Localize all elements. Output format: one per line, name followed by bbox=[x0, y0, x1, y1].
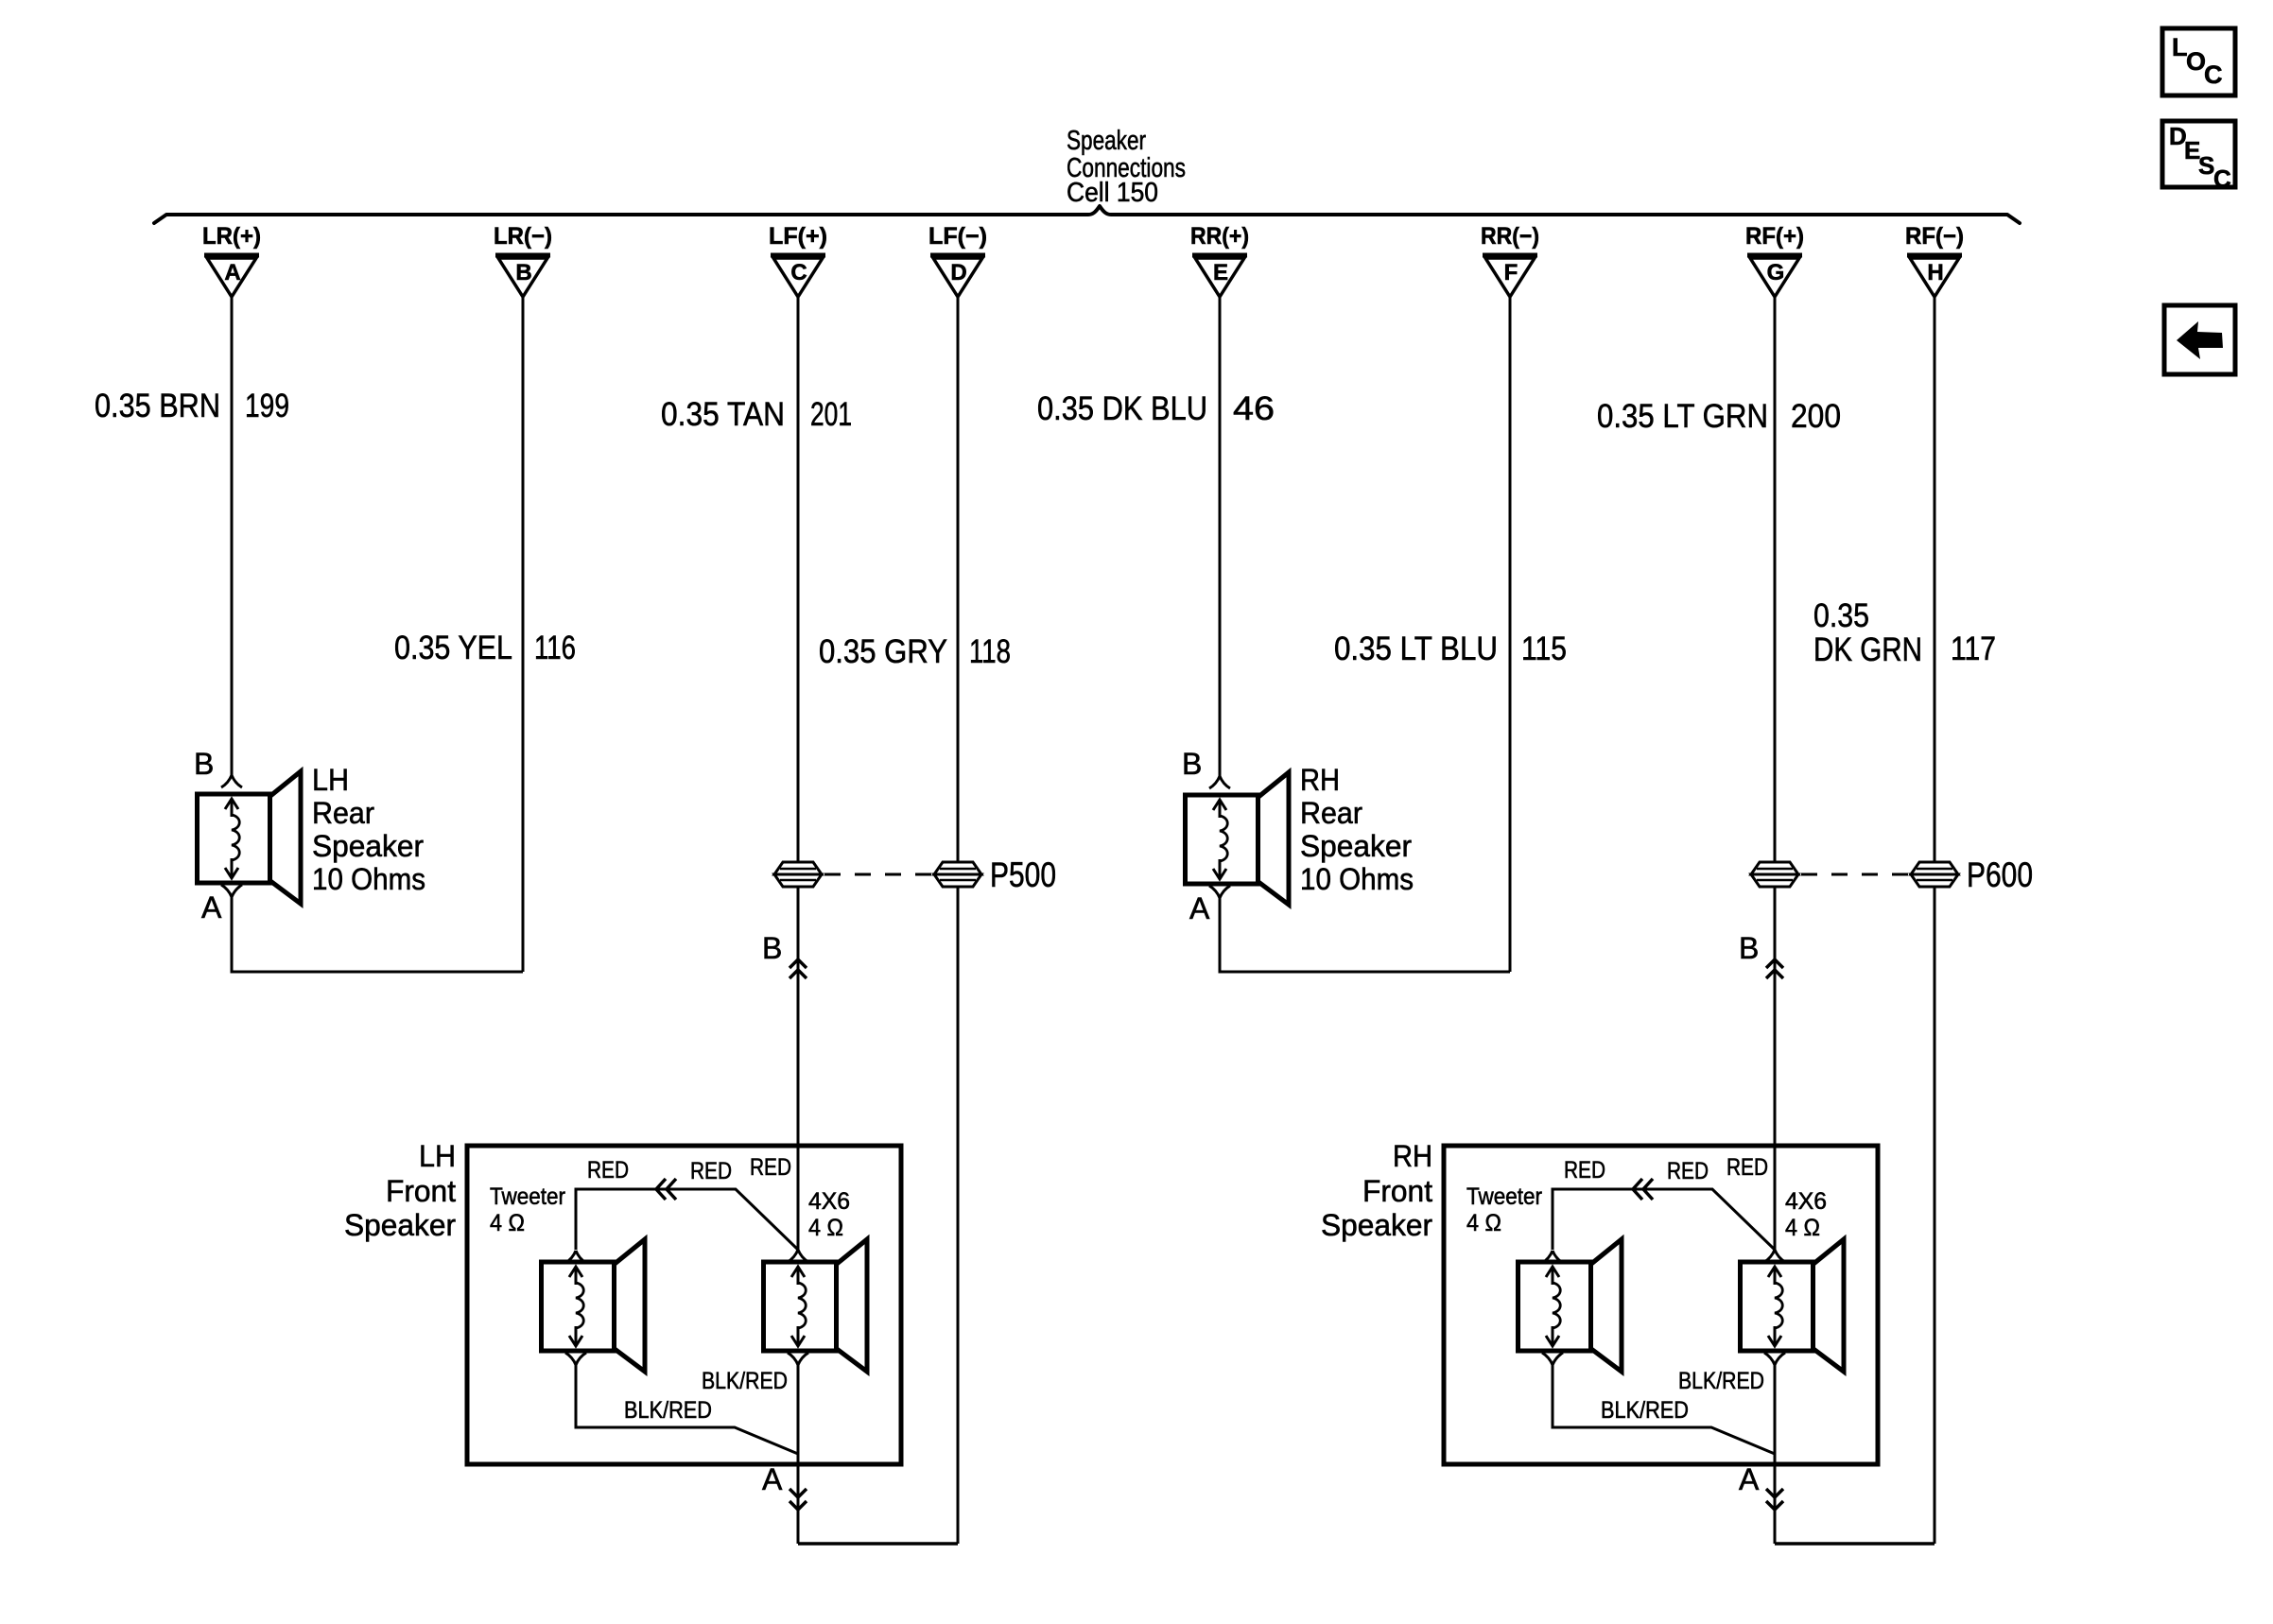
terminal bottom RH 4X6 bbox=[1764, 1353, 1785, 1365]
svg-text:LF(+): LF(+) bbox=[769, 223, 827, 250]
svg-text:RED: RED bbox=[690, 1158, 732, 1184]
svg-text:Speaker: Speaker bbox=[1300, 829, 1412, 863]
terminal bottom RH tweeter bbox=[1542, 1353, 1563, 1365]
chevrons left on RED wire LH bbox=[656, 1179, 676, 1200]
connector pin D triangle bbox=[930, 255, 985, 297]
speaker LH rear symbol bbox=[198, 771, 302, 904]
wire H below P600 to bottom return bbox=[1934, 887, 1936, 1544]
icon back arrow box bbox=[2164, 305, 2235, 374]
svg-text:RR(−): RR(−) bbox=[1481, 223, 1539, 250]
terminal A of RH rear speaker bbox=[1209, 886, 1230, 898]
wire RED jumper LH bbox=[576, 1189, 798, 1250]
speaker LH 4X6 bbox=[764, 1239, 868, 1372]
connector P600 half on wire G bbox=[1751, 862, 1798, 887]
connector pin F triangle bbox=[1483, 255, 1537, 297]
svg-text:B: B bbox=[1739, 931, 1759, 965]
chevrons down on wire below LH box bbox=[789, 1489, 807, 1510]
wire from LH rear speaker A to wire B bbox=[232, 897, 523, 972]
chevrons down on wire below RH box bbox=[1766, 1489, 1783, 1510]
wire 0.35 YEL 116 from pin B bbox=[522, 297, 525, 972]
svg-text:RH: RH bbox=[1393, 1139, 1432, 1173]
svg-text:DK GRN: DK GRN bbox=[1813, 631, 1922, 668]
wire bottom return LH to wire D bbox=[798, 1542, 958, 1546]
svg-text:LR(−): LR(−) bbox=[494, 223, 552, 250]
svg-text:200: 200 bbox=[1791, 398, 1841, 435]
terminal bottom LH tweeter bbox=[565, 1353, 586, 1365]
svg-text:Tweeter: Tweeter bbox=[1466, 1183, 1542, 1210]
label LH Rear Speaker 10 Ohms bbox=[312, 763, 425, 896]
wire BLK/RED from LH tweeter bbox=[576, 1365, 798, 1454]
label RH Rear Speaker 10 Ohms bbox=[1300, 763, 1414, 896]
svg-text:10 Ohms: 10 Ohms bbox=[312, 862, 425, 896]
svg-text:C: C bbox=[790, 260, 807, 285]
svg-text:E: E bbox=[1213, 260, 1228, 285]
svg-text:0.35 TAN: 0.35 TAN bbox=[661, 396, 785, 433]
svg-text:Rear: Rear bbox=[312, 796, 374, 830]
svg-text:A: A bbox=[1739, 1462, 1760, 1496]
svg-text:RF(−): RF(−) bbox=[1905, 223, 1964, 250]
connector P600 half on wire H bbox=[1911, 862, 1958, 887]
connector P500 half on wire C bbox=[774, 862, 822, 887]
wire G below P600 into RH front speaker bbox=[1774, 887, 1777, 1250]
svg-text:4 Ω: 4 Ω bbox=[808, 1215, 843, 1241]
svg-text:201: 201 bbox=[810, 396, 852, 433]
label LH Front Speaker bbox=[344, 1139, 456, 1242]
svg-text:B: B bbox=[1182, 747, 1202, 781]
svg-text:B: B bbox=[515, 260, 531, 285]
svg-text:LH: LH bbox=[312, 763, 349, 797]
svg-text:RED: RED bbox=[1726, 1154, 1768, 1181]
svg-text:Front: Front bbox=[1362, 1174, 1432, 1208]
svg-text:A: A bbox=[201, 890, 222, 924]
icon LOC box bbox=[2162, 28, 2235, 95]
svg-text:0.35 YEL: 0.35 YEL bbox=[394, 630, 512, 666]
svg-text:0.35 LT BLU: 0.35 LT BLU bbox=[1334, 631, 1498, 667]
svg-text:4 Ω: 4 Ω bbox=[490, 1210, 525, 1236]
svg-text:Rear: Rear bbox=[1300, 796, 1362, 830]
speaker RH rear symbol bbox=[1186, 772, 1290, 905]
wire 0.35 BRN 199 from pin A bbox=[231, 297, 234, 775]
svg-text:C: C bbox=[2204, 60, 2223, 89]
wire D below P500 to bottom return bbox=[957, 887, 960, 1544]
svg-text:4 Ω: 4 Ω bbox=[1466, 1210, 1501, 1236]
LH front speaker box bbox=[467, 1146, 901, 1464]
svg-text:0.35 GRY: 0.35 GRY bbox=[819, 633, 947, 670]
terminal top LH 4X6 bbox=[788, 1250, 808, 1262]
wire BLK/RED from LH 4X6 down bbox=[797, 1364, 800, 1544]
speaker LH tweeter bbox=[542, 1239, 646, 1372]
terminal top RH tweeter bbox=[1542, 1251, 1563, 1263]
svg-text:4X6: 4X6 bbox=[1785, 1188, 1827, 1215]
svg-text:B: B bbox=[194, 747, 214, 781]
svg-text:RED: RED bbox=[1667, 1158, 1709, 1184]
terminal top RH 4X6 bbox=[1764, 1250, 1785, 1262]
wire RED jumper RH bbox=[1553, 1189, 1775, 1250]
svg-text:0.35 LT GRN: 0.35 LT GRN bbox=[1597, 398, 1768, 435]
chevrons left on RED wire RH bbox=[1633, 1179, 1653, 1200]
connector pin A triangle bbox=[204, 255, 259, 297]
svg-text:P500: P500 bbox=[990, 855, 1056, 894]
svg-text:A: A bbox=[762, 1462, 783, 1496]
wire BLK/RED from RH tweeter bbox=[1553, 1365, 1775, 1454]
svg-text:Speaker: Speaker bbox=[1067, 126, 1146, 156]
terminal A of LH rear speaker bbox=[221, 885, 242, 897]
terminal bottom LH 4X6 bbox=[788, 1353, 808, 1365]
wire 0.35 TAN 201 from pin C bbox=[797, 297, 800, 862]
svg-text:BLK/RED: BLK/RED bbox=[1678, 1368, 1764, 1394]
svg-text:0.35: 0.35 bbox=[1813, 597, 1869, 634]
wire 0.35 DK GRN 117 from pin H bbox=[1934, 297, 1936, 862]
wire 0.35 LT BLU 115 from pin F bbox=[1509, 297, 1512, 972]
connector pin H triangle bbox=[1907, 255, 1962, 297]
label RH Front Speaker bbox=[1321, 1139, 1432, 1242]
wire C below P500 into LH front speaker bbox=[797, 887, 800, 1250]
svg-text:118: 118 bbox=[969, 633, 1011, 670]
svg-text:Tweeter: Tweeter bbox=[490, 1183, 565, 1210]
svg-text:RH: RH bbox=[1300, 763, 1340, 797]
wire 0.35 DK BLU 46 from pin E bbox=[1219, 297, 1222, 776]
dashed link P600 bbox=[1801, 873, 1909, 876]
svg-text:0.35 DK BLU: 0.35 DK BLU bbox=[1037, 390, 1207, 427]
chevrons up on wire G bbox=[1766, 959, 1783, 978]
svg-text:117: 117 bbox=[1951, 631, 1996, 667]
terminal B of LH rear speaker bbox=[221, 775, 242, 787]
svg-text:BLK/RED: BLK/RED bbox=[624, 1397, 712, 1424]
connector pin B triangle bbox=[495, 255, 550, 297]
brace to Speaker Connections Cell 150 bbox=[154, 206, 2020, 223]
svg-text:Speaker: Speaker bbox=[344, 1208, 456, 1242]
node Speaker Connections Cell 150 header bbox=[1067, 126, 1186, 208]
chevrons up on wire C bbox=[789, 959, 807, 978]
connector pin E triangle bbox=[1192, 255, 1247, 297]
wire BLK/RED from RH 4X6 down bbox=[1774, 1364, 1777, 1544]
svg-text:BLK/RED: BLK/RED bbox=[1601, 1397, 1689, 1424]
terminal B of RH rear speaker bbox=[1209, 776, 1230, 788]
svg-text:P600: P600 bbox=[1967, 855, 2033, 894]
svg-text:A: A bbox=[224, 260, 240, 285]
svg-text:LR(+): LR(+) bbox=[202, 223, 261, 250]
svg-text:4X6: 4X6 bbox=[808, 1188, 850, 1215]
svg-text:RED: RED bbox=[587, 1157, 629, 1183]
svg-text:F: F bbox=[1504, 260, 1518, 285]
svg-text:C: C bbox=[2213, 164, 2231, 193]
svg-text:199: 199 bbox=[245, 388, 289, 424]
svg-text:Speaker: Speaker bbox=[1321, 1208, 1432, 1242]
svg-text:RED: RED bbox=[750, 1154, 791, 1181]
connector pin G triangle bbox=[1747, 255, 1802, 297]
wire bottom return RH to wire H bbox=[1775, 1542, 1935, 1546]
svg-text:H: H bbox=[1927, 260, 1943, 285]
connector P500 half on wire D bbox=[934, 862, 981, 887]
speaker RH tweeter bbox=[1518, 1239, 1622, 1372]
speaker RH 4X6 bbox=[1741, 1239, 1845, 1372]
wire 0.35 GRY 118 from pin D bbox=[957, 297, 960, 862]
svg-text:LH: LH bbox=[419, 1139, 456, 1173]
wire from RH rear speaker A to wire F bbox=[1220, 898, 1510, 972]
svg-text:Speaker: Speaker bbox=[312, 829, 424, 863]
svg-text:B: B bbox=[762, 931, 782, 965]
dashed link P500 bbox=[824, 873, 932, 876]
svg-text:A: A bbox=[1189, 891, 1210, 925]
terminal top LH tweeter bbox=[565, 1251, 586, 1263]
wire 0.35 LT GRN 200 from pin G bbox=[1774, 297, 1777, 862]
svg-text:D: D bbox=[950, 260, 966, 285]
svg-text:BLK/RED: BLK/RED bbox=[702, 1368, 788, 1394]
icon DESC box bbox=[2162, 121, 2235, 187]
connector pin C triangle bbox=[771, 255, 825, 297]
svg-text:RR(+): RR(+) bbox=[1190, 223, 1249, 250]
svg-text:RF(+): RF(+) bbox=[1745, 223, 1804, 250]
svg-text:RED: RED bbox=[1564, 1157, 1605, 1183]
svg-text:S: S bbox=[2198, 151, 2214, 180]
svg-text:G: G bbox=[1767, 260, 1785, 285]
svg-text:116: 116 bbox=[534, 630, 576, 666]
svg-text:Cell 150: Cell 150 bbox=[1067, 178, 1158, 208]
svg-text:0.35 BRN: 0.35 BRN bbox=[95, 388, 220, 424]
svg-text:10 Ohms: 10 Ohms bbox=[1300, 862, 1414, 896]
svg-text:O: O bbox=[2186, 47, 2206, 76]
svg-text:4 Ω: 4 Ω bbox=[1785, 1215, 1820, 1241]
svg-text:115: 115 bbox=[1521, 631, 1567, 667]
svg-text:LF(−): LF(−) bbox=[928, 223, 987, 250]
svg-text:46: 46 bbox=[1233, 390, 1275, 427]
RH front speaker box bbox=[1444, 1146, 1878, 1464]
svg-text:Front: Front bbox=[386, 1174, 456, 1208]
